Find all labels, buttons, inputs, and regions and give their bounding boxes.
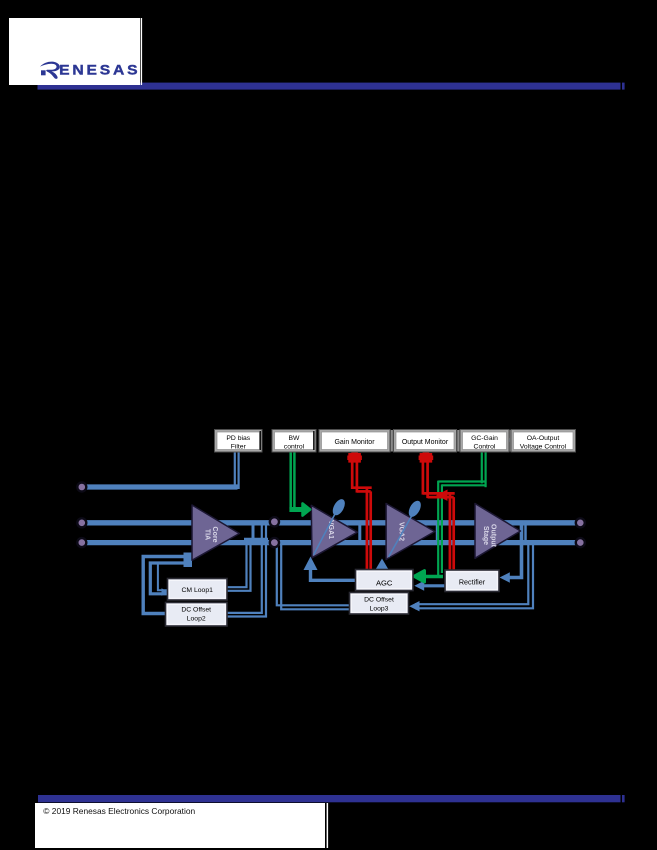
block: Output Monitor [394,430,457,453]
block: AGC [356,570,414,591]
terminal: output OUT+ [576,518,585,527]
amplifier U3 VGA2 [386,504,435,560]
svg-text:ENESAS: ENESAS [59,63,140,78]
arrowhead: GC-Gain into AGC right (green) [414,571,425,582]
wire: AGC gain control to VGA1 [311,566,356,580]
wire: Core TIA output fan [252,525,255,540]
node: TIA output junction - [270,538,279,547]
footer white panel [35,803,325,848]
terminal: output OUT- [576,538,585,547]
block: Rectifier [445,570,499,592]
block: OA-Output Voltage Control [511,430,576,453]
wire: GC-Gain down pair to AGC (green) [437,481,439,577]
gain-adjust arrowhead VGA2 [406,499,423,519]
svg-text:Gain Monitor: Gain Monitor [334,439,375,446]
block: GC-Gain Control [460,430,509,453]
wire: PD bias filter drop pair [234,452,236,489]
svg-text:OA-Output: OA-Output [527,435,560,442]
svg-text:Loop3: Loop3 [370,606,389,613]
wire: DC Offset Loop3 feedback pair to VGA1 input node [277,544,350,605]
footer rule bar [38,795,621,802]
logo white panel [9,18,140,85]
wire: VGA2 output fan [436,521,439,545]
wire: VGA1 output fan [358,521,361,545]
wire: Rectifier output to AGC [420,584,445,587]
node: TIA output junction + [270,517,279,526]
separator slivers between monitor blocks [391,430,393,452]
wire: signal line IN+ (top rail) [82,520,580,525]
svg-text:© 2019 Renesas Electronics Cor: © 2019 Renesas Electronics Corporation [43,806,195,816]
wire: CM Loop1 sense pair (TIA output to CM Loop1 right) [227,538,247,587]
wire: BW control drop pair (green) [289,452,292,509]
svg-text:OutputStage: OutputStage [482,524,497,548]
block: PD bias Filter [215,430,263,453]
wire: output rail tap to Rectifier [508,521,522,578]
block: Gain Monitor [319,430,390,453]
svg-text:Control: Control [474,443,496,450]
header rule bar [38,83,621,90]
wire: Rectifier to Output Monitor riser pair (red) [422,462,425,495]
svg-text:BW: BW [289,435,301,442]
amplifier U4 Output Stage [475,504,521,559]
amplifier U2 VGA1 [311,505,357,557]
svg-text:PD bias: PD bias [226,435,250,442]
arrowhead: Rectifier output into AGC right [414,581,424,591]
block: DC Offset Loop3 [350,593,409,615]
gain-adjust arrowhead VGA1 [330,497,347,517]
svg-text:Rectifier: Rectifier [459,578,486,587]
arrowhead: AGC control into VGA2 bottom [375,559,389,571]
wire: output stage apex connector [524,523,527,543]
arrowhead: into Output Monitor (red) [419,450,434,463]
terminal: input IN- [77,538,86,547]
svg-text:Output Monitor: Output Monitor [402,439,449,446]
wire: DC Offset Loop2 sense pair (rail to Loop2 right) [227,524,262,613]
wire: GC-Gain Control drop pair (green) [481,452,483,483]
junction bus at TIA lower-left edge [184,553,193,568]
arrowhead: tap into DC Offset Loop3 right [409,601,419,611]
svg-text:CM Loop1: CM Loop1 [182,587,214,594]
wire: GC-Gain jog left pair (green) [438,480,486,482]
block: CM Loop1 [168,579,228,601]
wire: AGC to Gain Monitor riser pair (red) [351,462,354,489]
svg-text:AGC: AGC [376,579,393,588]
arrowhead: AGC control into VGA1 bottom [304,557,318,571]
Renesas logo [40,62,140,79]
svg-text:control: control [284,443,305,450]
arrowhead: BW control into VGA1 (green) [303,503,311,515]
svg-text:Filter: Filter [231,443,247,450]
wire: AGC gain control to VGA2 [381,564,384,570]
gain-adjust arrow shaft across VGA1 [314,512,337,555]
block: BW control [272,430,316,453]
svg-text:GC-Gain: GC-Gain [471,435,498,442]
svg-text:Voltage Control: Voltage Control [520,443,567,450]
wire: DC Offset Loop2 feedback into TIA lower edge [143,557,191,614]
svg-text:DC Offset: DC Offset [364,597,394,604]
svg-text:DC Offset: DC Offset [181,607,211,614]
arrowhead: CM Loop1 feedback into box left [162,588,169,596]
wire: output rail tap pair to DC Offset Loop3 [415,544,528,604]
block: DC Offset Loop2 [166,603,228,627]
wire: CM Loop1 feedback into TIA lower edge [150,563,191,594]
terminal: input IN+ [77,518,86,527]
arrowhead: GC-Gain Control to OA-Output block [508,437,512,444]
wire: photodiode input line to PD bias filter [82,484,238,489]
svg-text:Loop2: Loop2 [187,616,206,623]
wire: signal line IN- (bottom rail) [82,540,580,545]
gain-adjust arrow shaft across VGA2 [389,514,414,558]
arrowhead: into Gain Monitor (red) [347,450,362,463]
arrowhead: monitor tap pointing left (red) [436,490,448,501]
arrowhead: tap into Rectifier right [500,572,510,582]
amplifier U1 Core TIA [192,505,239,560]
terminal: PD input [77,483,86,492]
